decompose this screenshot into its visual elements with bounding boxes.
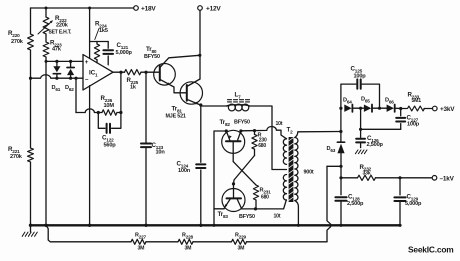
diode D65 xyxy=(361,97,380,112)
node Tr83 emitter rail xyxy=(212,224,215,227)
svg-text:+18V: +18V xyxy=(141,6,156,13)
transistor Tr80 xyxy=(144,46,200,93)
wire T2 secondary top xyxy=(295,132,341,138)
resistor R226 xyxy=(97,95,123,115)
diode D61 xyxy=(52,60,61,92)
svg-text:+3kV: +3kV xyxy=(440,106,455,113)
wire R230 to Tr83 base xyxy=(232,156,255,198)
resistor R233 xyxy=(401,92,433,111)
bus junction dots xyxy=(29,224,203,227)
svg-text:C125: C125 xyxy=(351,66,363,74)
svg-text:1k: 1k xyxy=(130,85,137,91)
svg-text:2,500p: 2,500p xyxy=(367,142,384,148)
svg-text:100p: 100p xyxy=(407,122,420,128)
svg-text:C121: C121 xyxy=(117,42,129,50)
svg-text:47k: 47k xyxy=(52,47,62,53)
svg-text:270k: 270k xyxy=(11,39,24,45)
node Tr82 emitter top xyxy=(225,129,228,132)
wire noninv input xyxy=(45,60,84,63)
svg-text:D63: D63 xyxy=(327,146,336,153)
resistor R229 xyxy=(232,233,247,252)
svg-text:270k: 270k xyxy=(10,154,23,160)
wire Tr82 collector to T2 xyxy=(239,127,286,139)
svg-text:1k5: 1k5 xyxy=(99,28,108,34)
node R233 input xyxy=(399,107,402,110)
diode D66 xyxy=(380,98,401,112)
diode D62 xyxy=(65,60,74,92)
wire R227-R228 xyxy=(146,241,178,243)
wire left rail bottom xyxy=(30,162,32,225)
svg-text:R227: R227 xyxy=(135,233,147,240)
wire feedback right up xyxy=(120,72,122,112)
svg-text:900t: 900t xyxy=(304,170,314,176)
wire R223 to ground xyxy=(45,57,47,225)
svg-text:D66: D66 xyxy=(385,98,394,105)
wire Tr82 base cross xyxy=(233,162,256,185)
wire +12V rail xyxy=(199,10,201,79)
transformer T2 core xyxy=(287,127,294,203)
svg-text:C122: C122 xyxy=(102,135,114,143)
capacitor C126 xyxy=(356,108,383,148)
svg-text:IC1: IC1 xyxy=(89,70,98,78)
svg-text:R220: R220 xyxy=(8,30,20,38)
wire emitter to L7 xyxy=(201,105,228,107)
node Tr80 collector xyxy=(198,54,201,57)
svg-text:10t: 10t xyxy=(274,213,281,219)
resistor R227 xyxy=(131,233,147,252)
terminal +3kV xyxy=(433,106,456,113)
wire R228-R229 xyxy=(193,241,232,243)
svg-text:10M: 10M xyxy=(104,103,115,109)
wire IC1 V- pin xyxy=(89,86,91,226)
wire R224/C121 stub xyxy=(90,41,109,43)
svg-text:–: – xyxy=(85,76,89,83)
svg-text:2,500p: 2,500p xyxy=(347,201,364,207)
wire C127 loop xyxy=(361,128,401,130)
wire secondary to D64 xyxy=(339,107,342,133)
resistor R224 xyxy=(94,21,107,63)
terminal +18V xyxy=(134,6,157,13)
capacitor C128 xyxy=(335,178,364,227)
capacitor C121 xyxy=(103,42,132,65)
svg-text:100n: 100n xyxy=(178,168,191,174)
svg-text:Tr82: Tr82 xyxy=(220,119,231,127)
svg-text:L7: L7 xyxy=(235,92,242,100)
wire osc emitter rail xyxy=(214,131,226,225)
resistor R232 xyxy=(341,164,432,181)
svg-text:SET E.H.T.: SET E.H.T. xyxy=(49,30,73,36)
svg-text:D62: D62 xyxy=(65,85,74,92)
transistor Tr82 xyxy=(220,119,250,162)
svg-text:BFY50: BFY50 xyxy=(234,120,250,126)
svg-text:R229: R229 xyxy=(235,233,247,240)
capacitor C127 xyxy=(396,109,420,130)
diode D64 xyxy=(343,98,361,112)
svg-text:680: 680 xyxy=(258,143,266,149)
wire +18V top rail xyxy=(31,7,134,10)
svg-text:100p: 100p xyxy=(354,74,367,80)
wire inv input xyxy=(31,75,84,78)
svg-text:560p: 560p xyxy=(104,143,117,149)
wire R229 to riser xyxy=(247,241,328,243)
svg-text:R226: R226 xyxy=(101,95,113,103)
watermark SeekIC.com xyxy=(408,245,453,255)
wire left rail top xyxy=(30,8,32,34)
svg-text:–1kV: –1kV xyxy=(440,176,455,183)
svg-text:Tr80: Tr80 xyxy=(146,46,157,54)
svg-text:R221: R221 xyxy=(8,146,20,154)
svg-text:D64: D64 xyxy=(343,98,352,105)
svg-text:220k: 220k xyxy=(56,23,69,29)
wire chain riser xyxy=(327,166,341,242)
node inv tap xyxy=(74,77,77,80)
resistor R228 xyxy=(178,233,194,252)
svg-text:R231: R231 xyxy=(260,188,272,195)
svg-text:D65: D65 xyxy=(361,97,370,104)
transistor Tr83 xyxy=(214,189,255,221)
svg-text:5M1: 5M1 xyxy=(412,98,422,104)
node D65-D66 xyxy=(378,107,381,110)
svg-text:T2: T2 xyxy=(287,127,294,135)
resistor R221 xyxy=(8,146,33,162)
op-amp IC1 xyxy=(83,55,113,91)
svg-text:Tr83: Tr83 xyxy=(218,211,229,219)
svg-text:BFY50: BFY50 xyxy=(144,54,160,60)
diode D63 xyxy=(327,132,345,167)
wire R225 to Tr80 xyxy=(141,71,154,74)
transformer T2 secondary xyxy=(295,138,314,201)
ground bus xyxy=(31,224,401,226)
transformer T2 primary top xyxy=(276,121,287,164)
svg-text:+: + xyxy=(85,59,89,66)
resistor R231 xyxy=(253,185,271,209)
resistor R230 xyxy=(252,131,267,156)
inductor L7 xyxy=(227,92,250,111)
wire D63 node down xyxy=(339,166,342,179)
terminal -1kV xyxy=(432,176,454,183)
node - divider tap xyxy=(29,77,32,80)
svg-text:3M: 3M xyxy=(185,246,192,252)
svg-text:BFY50: BFY50 xyxy=(239,214,255,220)
capacitor C125 xyxy=(341,66,380,109)
wire R222 top lead xyxy=(45,8,47,17)
wire T2 secondary bottom xyxy=(295,201,300,227)
wire IC1 V+ pin xyxy=(89,8,91,58)
resistor R220 xyxy=(8,30,33,50)
svg-text:3M: 3M xyxy=(138,246,145,252)
capacitor C129 xyxy=(394,178,422,227)
wire chain start xyxy=(46,225,131,242)
ground C126 xyxy=(355,150,367,154)
svg-text:10t: 10t xyxy=(276,121,283,127)
resistor R223 xyxy=(43,40,62,58)
svg-text:+12V: +12V xyxy=(206,6,221,13)
svg-text:SeekIC.com: SeekIC.com xyxy=(408,245,453,255)
wire Tr83 collector to T2 xyxy=(242,200,287,211)
svg-text:5,000p: 5,000p xyxy=(405,201,422,207)
transformer T2 primary bottom xyxy=(274,175,287,220)
wire feedback left xyxy=(76,109,102,113)
capacitor C124 xyxy=(177,105,206,225)
resistor R222 pot xyxy=(38,15,72,36)
svg-text:33k: 33k xyxy=(363,170,371,176)
capacitor C123 xyxy=(141,72,165,225)
ground symbol xyxy=(22,225,37,236)
resistor R225 xyxy=(125,70,142,91)
node Tr81 emitter xyxy=(199,103,202,106)
node D64-D65 xyxy=(359,107,362,110)
svg-text:3M: 3M xyxy=(238,246,245,252)
svg-text:R228: R228 xyxy=(182,233,194,240)
svg-text:5,000p: 5,000p xyxy=(116,50,133,56)
wire left rail mid xyxy=(30,50,32,148)
wire L7 to center tap xyxy=(249,106,287,170)
terminal +12V xyxy=(198,6,222,13)
capacitor C122 xyxy=(98,113,121,149)
svg-text:Tr81: Tr81 xyxy=(172,106,183,114)
svg-text:680: 680 xyxy=(261,194,269,200)
svg-text:10n: 10n xyxy=(156,150,166,156)
node D63 anode xyxy=(339,165,342,168)
transistor Tr81 xyxy=(166,79,203,120)
svg-text:MJE 521: MJE 521 xyxy=(166,114,186,120)
node C129 tap xyxy=(398,176,401,179)
wire inv to feedback xyxy=(75,78,77,112)
wire IC1 output xyxy=(113,71,125,74)
wire R222-R223 xyxy=(45,34,47,42)
svg-text:D61: D61 xyxy=(52,85,61,92)
